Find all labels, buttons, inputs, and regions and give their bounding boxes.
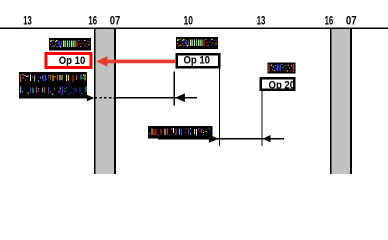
right-pointing arrowhead at label corner bbox=[87, 95, 94, 102]
vertical extension from left edge of Op 20 box bbox=[261, 91, 263, 146]
date/time label above second Op 10 box bbox=[176, 37, 218, 49]
operation box Op 10 (new position, red border) bbox=[45, 52, 93, 69]
vertical extension from left edge of second Op 10 box bbox=[173, 72, 175, 106]
dashed dimension line across gray bar bbox=[95, 97, 116, 99]
operation box Op 20 bbox=[260, 77, 296, 91]
left-pointing arrowhead at extension line bbox=[175, 93, 185, 102]
middle dimension line bbox=[116, 97, 197, 99]
red shift arrow from second Op 10 box to first bbox=[96, 56, 176, 66]
axis hour labels 13 16 07 10 13 16 07 bbox=[23, 13, 357, 27]
date/time label above first Op 10 box bbox=[49, 38, 91, 50]
bottom explanation label (queue time) bbox=[148, 126, 213, 139]
bottom dimension line bbox=[158, 138, 284, 140]
svg-text:Op 10: Op 10 bbox=[59, 55, 86, 67]
svg-text:10: 10 bbox=[184, 13, 194, 27]
svg-text:Op 20: Op 20 bbox=[269, 79, 296, 91]
right-pointing arrowhead at bottom dimension bbox=[209, 135, 219, 143]
non-working time bar right (16h to 07h) bbox=[330, 29, 352, 174]
time axis line bbox=[0, 27, 388, 29]
svg-text:07: 07 bbox=[110, 13, 121, 27]
vertical extension from right edge of second Op 10 box bbox=[219, 69, 221, 147]
non-working time bar left (16h to 07h) bbox=[94, 29, 116, 174]
operation box Op 10 (original position, black border) bbox=[176, 53, 221, 69]
left-pointing arrowhead at bottom dimension bbox=[263, 135, 271, 142]
svg-text:16: 16 bbox=[325, 13, 334, 27]
svg-text:13: 13 bbox=[23, 13, 32, 27]
two-line explanation label at left bbox=[19, 72, 87, 99]
svg-text:07: 07 bbox=[346, 13, 357, 27]
svg-text:13: 13 bbox=[257, 13, 266, 27]
svg-text:Op 10: Op 10 bbox=[183, 55, 210, 67]
svg-text:16: 16 bbox=[88, 13, 97, 27]
small label above Op 20 box bbox=[268, 62, 296, 73]
